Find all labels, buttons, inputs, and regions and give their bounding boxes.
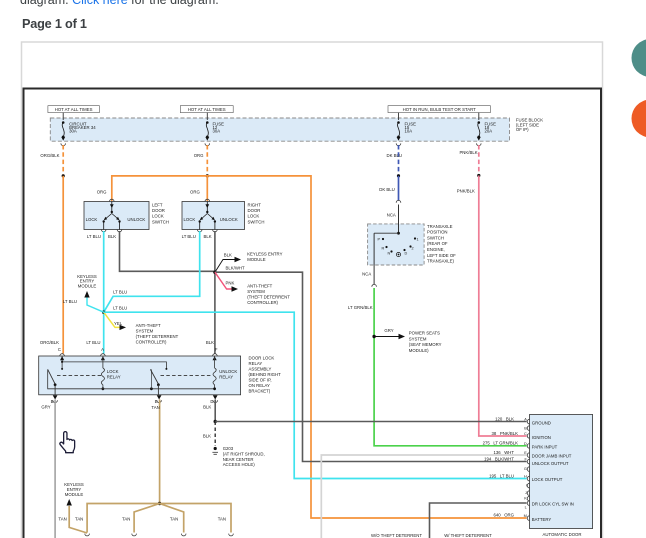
relay pin E arrow [155,395,162,404]
svg-text:HOT AT ALL TIMES: HOT AT ALL TIMES [55,107,93,112]
svg-text:(THEFT DETERRENT: (THEFT DETERRENT [136,334,179,339]
svg-text:B: B [524,427,527,431]
relay internal top bus [60,356,217,370]
svg-text:LOCK: LOCK [107,369,119,374]
wire LT BLU from right switch to junction A [104,231,200,312]
svg-text:DOOR: DOOR [248,208,261,213]
svg-text:CONTROLLER): CONTROLLER) [247,300,278,305]
svg-text:F: F [215,347,218,352]
svg-text:MODULE: MODULE [78,284,97,289]
svg-text:UNLOCK: UNLOCK [220,217,238,222]
svg-text:194 BLK/WHT: 194 BLK/WHT [484,456,514,461]
svg-text:J: J [525,491,527,495]
svg-text:SYSTEM: SYSTEM [247,289,265,294]
module pin C [524,432,551,440]
module pin B [524,426,529,431]
svg-text:TAN: TAN [122,517,130,522]
svg-text:120 BLK: 120 BLK [495,416,514,421]
svg-text:DK BLU: DK BLU [386,153,402,158]
svg-text:TAN: TAN [151,405,159,410]
fuse block (left side of IP) [50,118,543,142]
node TAN junction [158,502,161,505]
svg-text:POWER SEATS: POWER SEATS [409,331,440,336]
svg-text:ON RELAY: ON RELAY [249,383,271,388]
wire to lower connector NCA [362,265,376,287]
svg-text:640 ORG: 640 ORG [493,512,514,517]
orange action button [632,100,646,138]
svg-text:NCA: NCA [362,272,371,277]
svg-text:ORG/BLK: ORG/BLK [40,340,59,345]
svg-text:TRANSAXLE: TRANSAXLE [427,224,453,229]
node on ORG [206,174,209,177]
svg-text:OF IP): OF IP) [516,127,529,132]
svg-text:BLK: BLK [108,234,116,239]
svg-text:MODULE): MODULE) [409,348,429,353]
svg-text:SWITCH: SWITCH [427,235,444,240]
node LT BLU junction [102,311,105,314]
wire BLK from relay pin D down [203,400,215,423]
wire BLK from left switch to keyless junction [108,231,215,271]
svg-text:BLK: BLK [206,340,214,345]
wire feed to fuse 18 [478,113,480,120]
svg-text:ORG: ORG [190,189,200,194]
svg-text:LT BLU: LT BLU [86,340,100,345]
svg-text:BATTERY: BATTERY [532,517,552,522]
svg-text:275 LT GRN/BLK: 275 LT GRN/BLK [483,441,519,446]
svg-text:H: H [524,475,527,479]
relay pin B arrow [51,395,58,404]
transaxle position switch [368,205,457,266]
svg-text:BLK/WHT: BLK/WHT [226,265,245,270]
svg-text:C: C [58,347,61,352]
svg-text:GRY: GRY [41,404,50,409]
svg-text:AUTOMATIC DOOR: AUTOMATIC DOOR [543,532,582,537]
wire ORG dashed segment from fuse 12 [194,145,208,176]
wire feed to circuit breaker [62,113,64,120]
fuse 15 10A [397,121,416,138]
node on LT GRN/BLK [372,335,375,338]
relay bottom bus [48,369,215,390]
svg-text:MODULE: MODULE [247,257,266,262]
svg-text:BLK: BLK [203,234,211,239]
svg-text:PNK/BLK: PNK/BLK [457,188,475,193]
svg-text:ORG: ORG [194,153,204,158]
svg-text:UNLOCK: UNLOCK [127,217,145,222]
svg-text:1: 1 [417,238,419,242]
svg-text:W/ THEFT DETERRENT: W/ THEFT DETERRENT [444,533,492,538]
wire BLK stub to keyless entry module [215,252,283,273]
svg-text:DOOR JAMB INPUT: DOOR JAMB INPUT [532,454,572,459]
right door lock switch [182,199,264,232]
wire GRY from relay pin B down [41,400,55,538]
svg-text:KEYLESS ENTRY: KEYLESS ENTRY [247,252,282,257]
HOT IN RUN BULB TEST OR START label box [388,106,490,113]
module pin E [524,451,572,459]
ground G203 [212,446,264,467]
wire LT BLU stub to keyless entry module [63,274,104,312]
connector arc NCA on DK BLU [387,200,401,217]
svg-text:W/O THEFT DETERRENT: W/O THEFT DETERRENT [371,533,422,538]
svg-text:ORG/BLK: ORG/BLK [40,153,59,158]
wire BLK/WHT from junction to module pin F [215,265,527,461]
svg-text:LT GRN/BLK: LT GRN/BLK [348,305,373,310]
wire BLK dashed to ground [203,422,215,447]
wire BLK long run to module pin A [215,416,526,421]
svg-text:ASSEMBLY: ASSEMBLY [249,367,272,372]
svg-text:LEFT: LEFT [152,203,163,208]
svg-text:BLK: BLK [224,253,232,258]
svg-text:LOCK: LOCK [86,217,98,222]
wire LT BLU long run to module pin H [104,306,527,479]
svg-text:CONTROLLER): CONTROLLER) [136,339,167,344]
svg-text:IGNITION: IGNITION [532,435,551,440]
wire PNK/BLK solid to module pin C [457,176,527,437]
wire DK BLU dashed segment from fuse 15 [386,145,402,176]
wire ORG bus horizontal with branches [97,176,527,518]
relay unlock coil [213,356,237,390]
svg-text:(BEHIND RIGHT: (BEHIND RIGHT [249,372,282,377]
mouse cursor [60,432,75,453]
svg-text:2: 2 [412,247,414,251]
wire TAN from relay pin E down to junction [151,400,159,504]
svg-text:E: E [155,399,158,404]
svg-text:BLK: BLK [203,434,211,439]
svg-text:ORG: ORG [97,189,107,194]
svg-text:BLK: BLK [203,404,211,409]
svg-text:38 PNK/BLK: 38 PNK/BLK [491,431,518,436]
wire TAN stub to keyless entry module [64,482,87,533]
svg-text:10A: 10A [405,128,413,133]
svg-text:TRANSAXLE): TRANSAXLE) [427,259,455,264]
svg-text:(REAR OF: (REAR OF [427,241,448,246]
wire TAN distribution bus [58,504,231,533]
connector arcs at tan drops [85,534,234,536]
node on PNK/BLK [477,174,480,177]
svg-text:SYSTEM: SYSTEM [409,336,427,341]
svg-text:K: K [524,497,527,501]
svg-text:NEAR CENTER: NEAR CENTER [223,457,254,462]
svg-text:DK BLU: DK BLU [379,187,395,192]
svg-text:DOOR: DOOR [152,208,165,213]
svg-text:SWITCH: SWITCH [152,219,169,224]
wire WHT to module pin E [321,450,526,538]
svg-text:LT BLU: LT BLU [87,234,101,239]
svg-text:LT BLU: LT BLU [63,299,77,304]
svg-text:(AT RIGHT SHROUD,: (AT RIGHT SHROUD, [223,451,265,456]
svg-text:LOCK: LOCK [152,214,164,219]
wire feed to fuse 15 [398,113,400,120]
svg-text:N: N [388,252,391,256]
module pin H [524,475,563,482]
svg-text:A: A [524,418,527,422]
svg-text:RELAY: RELAY [249,361,263,366]
svg-text:LOCK OUTPUT: LOCK OUTPUT [532,477,563,482]
node on ORG/BLK [62,174,65,177]
svg-text:RELAY: RELAY [219,374,233,379]
node W/O THEFT DETERRENT [371,533,422,538]
svg-text:LT BLU: LT BLU [182,234,196,239]
svg-text:30A: 30A [69,128,77,133]
svg-text:NCA: NCA [387,213,396,218]
node W/ THEFT DETERRENT [444,533,492,538]
svg-text:SIDE OF IP,: SIDE OF IP, [249,378,272,383]
wire ORG/BLK solid down to relay pin C [40,176,63,354]
svg-text:G: G [524,467,527,471]
svg-text:HOT IN RUN, BULB TEST OR START: HOT IN RUN, BULB TEST OR START [403,107,477,112]
svg-text:ANTI-THEFT: ANTI-THEFT [136,323,161,328]
svg-text:(THEFT DETERRENT: (THEFT DETERRENT [247,295,290,300]
fuse 12 30A [206,121,224,138]
module pin K [524,496,529,501]
svg-text:MODULE: MODULE [65,492,84,497]
connector arc under fuse 12 [205,137,210,146]
svg-text:B: B [51,399,54,404]
svg-text:C: C [524,432,527,436]
svg-text:20A: 20A [485,128,493,133]
svg-text:LEFT SIDE OF: LEFT SIDE OF [427,253,456,258]
svg-text:ACCESS HOLE): ACCESS HOLE) [223,462,256,467]
wire PNK stub to anti-theft system [215,272,290,305]
svg-text:PNK: PNK [226,280,235,285]
svg-text:PNK/BLK: PNK/BLK [459,150,477,155]
node on DK BLU [397,174,400,177]
svg-text:POSITION: POSITION [427,230,448,235]
svg-text:LT BLU: LT BLU [113,290,127,295]
svg-text:TAN: TAN [170,517,178,522]
fuse 18 20A [478,121,497,138]
HOT AT ALL TIMES label box 2 [180,106,233,113]
svg-text:136 WHT: 136 WHT [493,450,514,455]
module pin F [524,458,568,467]
wire ORG/BLK dashed segment from breaker [40,145,63,176]
teal action button [632,39,646,77]
svg-text:ANTI-THEFT: ANTI-THEFT [247,284,272,289]
relay pin D arrow [210,395,217,404]
svg-text:30A: 30A [213,128,221,133]
svg-text:LT BLU: LT BLU [113,306,127,311]
HOT AT ALL TIMES label box 1 [48,106,100,113]
wire BLK to module pin L [430,503,527,538]
wire DK BLU solid to connector [379,176,398,201]
svg-text:PARK INPUT: PARK INPUT [532,444,558,449]
circuit breaker 34 30A [62,121,96,138]
wire BLK from right switch down to relay pin F [203,231,217,354]
svg-text:I: I [526,483,527,487]
node BLK ground junction [214,420,217,423]
svg-text:ENGINE,: ENGINE, [427,247,445,252]
svg-text:M: M [524,514,527,518]
node BLK junction [213,271,216,274]
relay lock switch contact [48,369,101,394]
svg-text:DOOR LOCK: DOOR LOCK [249,356,275,361]
connector arc under fuse 18 [477,137,482,146]
svg-text:RELAY: RELAY [107,374,121,379]
relay unlock switch contact [150,369,211,394]
svg-text:GRY: GRY [384,328,393,333]
wire GRY stub to power seats system [374,328,442,353]
module pin A [524,418,551,426]
svg-text:YEL: YEL [114,321,123,326]
svg-text:SWITCH: SWITCH [248,219,265,224]
svg-text:LOCK: LOCK [248,214,260,219]
svg-text:G203: G203 [223,446,234,451]
svg-text:UNLOCK: UNLOCK [219,369,237,374]
wire YEL stub to anti-theft system [104,312,179,344]
svg-text:TAN: TAN [218,517,226,522]
module pin J [525,491,530,496]
svg-text:E: E [524,451,527,455]
svg-text:LOCK: LOCK [184,217,196,222]
svg-text:GROUND: GROUND [532,421,551,426]
module pin G [524,467,530,472]
module pin L [525,501,574,510]
wire LT BLU from left switch down to relay pin A [86,231,104,354]
wire feed to fuse 12 [206,113,208,120]
connector arc under circuit breaker [61,137,66,146]
diagram page border [24,89,602,538]
svg-text:D: D [405,252,408,256]
relay lock coil [101,356,120,390]
module pin D [524,442,558,450]
wire PNK/BLK dashed segment from fuse 18 [459,145,478,175]
svg-text:DR LOCK CYL SW IN: DR LOCK CYL SW IN [532,502,574,507]
svg-text:SYSTEM: SYSTEM [136,328,154,333]
automatic door lock module [530,415,593,538]
svg-text:R: R [382,247,385,251]
svg-text:HOT AT ALL TIMES: HOT AT ALL TIMES [188,107,226,112]
svg-text:A: A [101,347,104,352]
svg-text:(SEAT MEMORY: (SEAT MEMORY [409,342,442,347]
svg-text:TAN: TAN [58,517,66,522]
svg-text:UNLOCK OUTPUT: UNLOCK OUTPUT [532,461,569,466]
svg-text:L: L [525,505,527,509]
svg-text:BRACKET): BRACKET) [249,389,271,394]
svg-text:D: D [210,399,213,404]
svg-text:RIGHT: RIGHT [248,203,262,208]
wire LT GRN/BLK to module pin D [348,288,527,446]
svg-text:195 LT BLU: 195 LT BLU [489,473,514,478]
svg-text:D: D [524,442,527,446]
door lock relay assembly [39,354,281,395]
left door lock switch [84,199,169,232]
svg-text:TAN: TAN [75,517,83,522]
module pin M [524,514,552,522]
connector arc under fuse 15 [396,137,401,146]
module pin I [526,483,530,488]
